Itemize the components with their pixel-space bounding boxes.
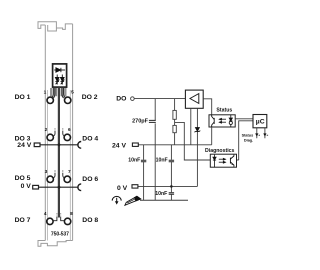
junction 0V/cap: [170, 185, 173, 188]
clamp hooks row 4: [53, 213, 64, 221]
svg-text:DO: DO: [116, 96, 126, 103]
svg-text:5: 5: [71, 89, 74, 95]
resistor branch wire: [174, 99, 176, 145]
functional earth symbol: [112, 196, 121, 204]
DO wire: [134, 98, 185, 100]
24V wire left: [40, 144, 79, 146]
svg-text:24 V: 24 V: [112, 143, 126, 150]
junction bus/0V: [58, 186, 61, 189]
Status to uC wire: [235, 118, 253, 120]
Diagnostics opto arrows: [219, 158, 226, 163]
Diagnostics opto phototransistor: [230, 155, 234, 167]
module bottom profile: [38, 241, 73, 247]
24V plug left: [34, 143, 40, 147]
zener diode Z1: [195, 128, 201, 133]
internal bus (double dark line): [58, 87, 60, 217]
driver triangle: [190, 94, 199, 104]
power jumper blade symbol: [125, 196, 141, 205]
svg-text:0 V: 0 V: [117, 185, 128, 192]
0V wire left: [38, 186, 78, 188]
svg-text:6: 6: [68, 127, 71, 133]
driver pin 2 wire: [196, 108, 198, 186]
svg-text:1: 1: [44, 89, 47, 95]
Status opto arrows: [219, 118, 226, 123]
capacitor 10nF (24V): [141, 160, 146, 162]
svg-text:DO 7: DO 7: [15, 217, 31, 224]
uC pin wires: [257, 128, 265, 138]
module outline top-right step: [56, 24, 72, 30]
svg-text:10nF: 10nF: [128, 158, 140, 164]
terminal 8 circle: [64, 218, 70, 224]
svg-text:DO 2: DO 2: [82, 94, 98, 101]
svg-text:DO 8: DO 8: [82, 217, 98, 224]
Status opto phototransistor: [212, 115, 215, 127]
24V rail right: [138, 144, 211, 146]
junction bus/24V: [58, 143, 61, 146]
resistor R1: [173, 110, 176, 119]
svg-text:270pF: 270pF: [132, 119, 149, 125]
terminal 7 circle: [64, 176, 70, 182]
capacitor 270pF: [149, 120, 156, 122]
DO node circle: [131, 97, 135, 101]
svg-text:750-537: 750-537: [51, 232, 69, 238]
Diagnostics opto LED: [213, 155, 216, 168]
svg-text:10nF: 10nF: [155, 191, 167, 197]
FE rail: [140, 199, 188, 201]
terminal 6 circle: [64, 134, 70, 140]
terminal 3 circle: [47, 176, 53, 182]
0V socket arc right: [78, 184, 81, 191]
24V plug right: [132, 143, 138, 146]
uC pin arrow 1: [255, 133, 258, 136]
0V rail right: [138, 185, 198, 187]
driver pin 1 wire: [190, 108, 192, 145]
24V-FE branch wire: [143, 145, 145, 201]
svg-text:10nF: 10nF: [156, 158, 168, 164]
module inner wall left: [47, 90, 49, 241]
LED box: [53, 64, 67, 87]
LED L2 inside LED box: [61, 75, 65, 85]
Status opto LED: [229, 115, 232, 127]
terminal 2 circle: [47, 134, 53, 140]
module left edge: [44, 25, 46, 241]
Status optocoupler box: [209, 115, 235, 127]
Diagnostics optocoupler box: [210, 154, 236, 167]
op-amp driver box: [185, 90, 203, 108]
svg-text:DO 5: DO 5: [15, 175, 31, 182]
driver output wire: [203, 99, 212, 115]
0V plug left: [33, 185, 39, 189]
svg-text:Status: Status: [216, 108, 232, 114]
clamp hooks row 3: [53, 170, 65, 178]
svg-text:0 V: 0 V: [21, 183, 32, 190]
diode D1 inside LED box: [54, 68, 65, 72]
Diagnostics to uC riser: [237, 121, 253, 160]
svg-text:DO 4: DO 4: [82, 136, 98, 143]
terminal 4 circle: [47, 218, 53, 224]
svg-text:3: 3: [45, 169, 48, 175]
capacitor 10nF (mid): [169, 160, 174, 162]
svg-text:DO 6: DO 6: [82, 176, 98, 183]
svg-text:7: 7: [68, 169, 71, 175]
capacitor 10nF (0V): [169, 193, 174, 195]
svg-text:4: 4: [44, 211, 47, 217]
LED L1 inside LED box: [55, 75, 59, 85]
resistor R2: [173, 125, 176, 132]
svg-text:Status: Status: [242, 134, 254, 138]
0V plug right: [132, 185, 138, 188]
24V-0V branch wire: [170, 145, 172, 201]
module inner wall right: [69, 90, 71, 241]
clamp hooks row 2: [53, 128, 65, 136]
module outline top profile: [38, 22, 56, 31]
microcontroller box: [253, 115, 267, 128]
svg-text:8: 8: [70, 211, 73, 217]
uC pin arrow 2: [263, 133, 266, 136]
contact hatch below LED box: [51, 88, 66, 96]
svg-text:DO 1: DO 1: [15, 94, 31, 101]
svg-text:2: 2: [45, 127, 48, 133]
svg-text:24 V: 24 V: [17, 142, 31, 149]
Status box to 24V rail wire: [211, 127, 213, 145]
terminal 1 circle: [47, 97, 53, 103]
270pF branch wire: [154, 99, 156, 201]
svg-text:µC: µC: [256, 118, 265, 125]
branch to diagnostics: [175, 122, 211, 160]
terminal 5 circle: [65, 97, 71, 103]
24V socket arc right: [78, 142, 81, 149]
svg-text:Diagnostics: Diagnostics: [205, 148, 235, 154]
svg-text:Diag.: Diag.: [244, 138, 253, 142]
module right edge: [72, 24, 74, 241]
